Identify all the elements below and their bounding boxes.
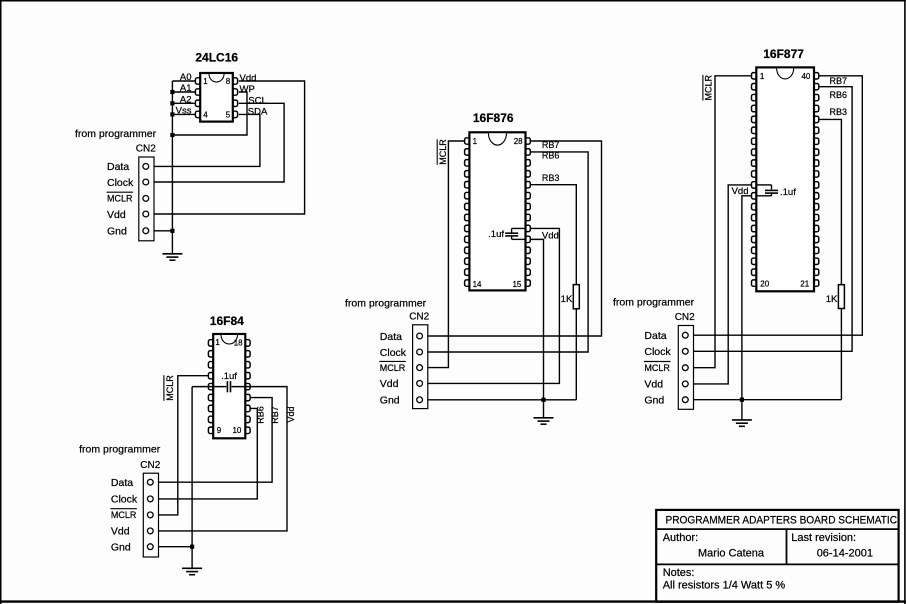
svg-text:16F877: 16F877	[763, 47, 804, 61]
title block frame	[656, 510, 898, 602]
IC U3 16F876 right pin stubs	[525, 138, 531, 286]
wire SCL to CN2 Clock	[149, 103, 284, 182]
resistor R2 1K body	[838, 285, 844, 309]
svg-text:MCLR: MCLR	[644, 363, 670, 373]
wire A0 to bus	[172, 80, 195, 82]
wire Vss to bus	[172, 113, 195, 115]
svg-text:Gnd: Gnd	[380, 395, 400, 407]
svg-text:Vdd: Vdd	[542, 231, 559, 242]
svg-text:CN2: CN2	[675, 312, 695, 323]
wire Vss pin12 to ground D	[742, 196, 752, 400]
junction A2	[170, 101, 174, 105]
ground symbol C	[534, 417, 554, 419]
svg-text:Mario Catena: Mario Catena	[698, 547, 765, 559]
wire pin28 to CN2 Data	[421, 141, 602, 336]
junction Gnd C	[541, 398, 545, 402]
wire CN2 Gnd row C	[421, 399, 576, 401]
page border frame	[0, 0, 906, 2]
svg-text:from programmer: from programmer	[79, 443, 161, 455]
connector CN2 body	[678, 326, 693, 410]
wire MCLR pin1 to CN2 D	[688, 76, 752, 368]
svg-text:MCLR: MCLR	[438, 139, 448, 165]
IC U3 16F876 body with notch	[469, 132, 525, 290]
wire cap bracket bottom C	[512, 238, 527, 240]
wire cap bracket top D	[756, 184, 772, 186]
title block divider row2	[656, 563, 898, 565]
svg-text:RB3: RB3	[830, 107, 848, 117]
svg-text:Gnd: Gnd	[111, 542, 131, 554]
svg-text:15: 15	[512, 280, 521, 289]
title block divider row1	[656, 528, 898, 530]
svg-text:SDA: SDA	[248, 107, 268, 118]
junction Gnd D	[740, 398, 744, 402]
IC U4 16F877 left pin stubs	[752, 73, 758, 287]
svg-text:1K: 1K	[826, 294, 838, 305]
svg-text:1: 1	[760, 72, 765, 81]
wire Vdd pin14 to CN2 Vdd	[154, 387, 287, 531]
svg-text:16F876: 16F876	[473, 111, 514, 125]
svg-text:Vdd: Vdd	[111, 526, 130, 538]
svg-text:MCLR: MCLR	[704, 74, 714, 100]
wire Vss pin5 to ground	[191, 387, 193, 547]
svg-text:40: 40	[801, 72, 810, 81]
junction Gnd B	[190, 545, 194, 549]
ground stem D	[741, 400, 743, 420]
wire A2 to bus	[172, 102, 195, 104]
capacitor C3 .1uf D	[771, 185, 773, 190]
wire Vdd pin11 to CN2 Vdd D	[688, 185, 752, 384]
svg-text:MCLR: MCLR	[165, 375, 175, 401]
svg-text:CN2: CN2	[409, 312, 429, 323]
wire MCLR pin4 to CN2	[154, 376, 209, 515]
svg-text:1: 1	[203, 77, 208, 86]
wire A1 to bus	[172, 91, 195, 93]
IC U2 16F84 left pin stubs	[208, 340, 214, 434]
wire ground bus vertical	[171, 81, 173, 231]
svg-text:18: 18	[234, 339, 243, 348]
svg-text:RB6: RB6	[830, 90, 848, 100]
svg-text:Vdd: Vdd	[240, 73, 257, 84]
svg-text:Clock: Clock	[111, 494, 138, 506]
svg-text:06-14-2001: 06-14-2001	[817, 547, 873, 559]
ground symbol	[162, 253, 182, 255]
connector CN2 body	[143, 473, 158, 557]
wire cap bracket bottom D	[756, 195, 772, 197]
svg-text:Last revision:: Last revision:	[791, 532, 856, 544]
wire Vss pin5 left segment	[192, 386, 226, 388]
svg-text:Data: Data	[380, 331, 402, 343]
wire RB6 pin12 to CN2 Clock	[154, 408, 258, 498]
ground symbol B	[182, 567, 202, 569]
svg-text:Clock: Clock	[107, 177, 134, 189]
wire MCLR pin1 to CN2	[421, 141, 465, 368]
wire RB3 pin24 to resistor	[531, 185, 577, 285]
svg-text:16F84: 16F84	[210, 314, 244, 328]
IC U1 24LC16 left pin stubs	[195, 78, 201, 118]
connector CN2 pin circles	[417, 333, 423, 403]
wire SDA to CN2 Data	[149, 114, 260, 166]
svg-text:Data: Data	[644, 330, 666, 342]
connector CN2 pin circles	[682, 332, 688, 402]
wire CN2 Gnd row	[154, 546, 193, 548]
svg-text:Vdd: Vdd	[286, 406, 296, 422]
wire RB7 pin13 to CN2 Data	[154, 398, 273, 483]
svg-text:RB7: RB7	[542, 140, 560, 150]
svg-text:Data: Data	[107, 161, 129, 173]
svg-text:.1uf: .1uf	[780, 187, 796, 198]
svg-text:from programmer: from programmer	[345, 298, 427, 310]
wire CN2 Gnd to ground	[149, 230, 173, 232]
wire resistor to Gnd row D	[840, 309, 842, 400]
svg-text:1K: 1K	[561, 294, 573, 305]
svg-text:21: 21	[800, 279, 809, 288]
svg-text:.1uf: .1uf	[221, 371, 237, 382]
wire pin27 to CN2 Clock	[421, 152, 588, 352]
junction WP return	[170, 133, 174, 137]
connector CN2 body	[413, 325, 428, 409]
svg-text:14: 14	[473, 280, 482, 289]
wire Vss pin19 to ground C	[531, 239, 544, 399]
svg-text:28: 28	[514, 137, 523, 146]
capacitor C1 .1uf C	[511, 228, 513, 232]
svg-text:Clock: Clock	[644, 346, 671, 358]
ground symbol D	[732, 419, 752, 421]
svg-text:SCL: SCL	[248, 96, 266, 107]
svg-text:All resistors 1/4 Watt 5 %: All resistors 1/4 Watt 5 %	[663, 580, 786, 592]
svg-text:9: 9	[217, 426, 222, 435]
ground stem C	[543, 400, 545, 418]
wire Vdd pin20 to CN2 Vdd	[421, 228, 560, 383]
svg-text:RB3: RB3	[542, 173, 560, 183]
svg-text:Clock: Clock	[380, 347, 407, 359]
IC U2 16F84 right pin stubs	[244, 340, 250, 434]
connector CN2 pin circles	[143, 164, 149, 234]
svg-text:Gnd: Gnd	[644, 395, 664, 407]
svg-text:RB7: RB7	[270, 406, 280, 424]
IC U3 16F876 left pin stubs	[465, 138, 471, 286]
IC U4 16F877 body with notch	[756, 67, 814, 291]
svg-text:RB6: RB6	[542, 151, 560, 161]
svg-text:MCLR: MCLR	[107, 194, 133, 204]
svg-text:4: 4	[203, 111, 208, 120]
svg-text:.1uf: .1uf	[488, 229, 504, 240]
svg-text:RB6: RB6	[256, 406, 266, 424]
wire pin40 to CN2 Data D	[688, 76, 862, 335]
svg-text:24LC16: 24LC16	[195, 50, 238, 64]
capacitor C2 .1uf plates	[226, 381, 228, 392]
IC U4 16F877 right pin stubs	[813, 73, 819, 287]
resistor R1 1K body	[573, 285, 579, 309]
svg-text:Vdd: Vdd	[644, 379, 663, 391]
ground stem B	[191, 547, 193, 569]
wire pin39 to CN2 Clock D	[688, 87, 852, 352]
svg-text:MCLR: MCLR	[111, 510, 137, 520]
svg-text:5: 5	[226, 111, 231, 120]
wire WP to ground bus	[172, 92, 247, 135]
svg-text:8: 8	[226, 77, 231, 86]
junction A1	[170, 90, 174, 94]
wire resistor to Gnd row	[575, 309, 577, 400]
svg-text:CN2: CN2	[136, 144, 156, 155]
svg-text:PROGRAMMER ADAPTERS BOARD SCHE: PROGRAMMER ADAPTERS BOARD SCHEMATIC	[666, 515, 898, 527]
svg-text:CN2: CN2	[140, 460, 160, 471]
wire RB3 pin36 to resistor D	[819, 119, 842, 284]
svg-text:1: 1	[215, 338, 220, 347]
svg-text:Notes:: Notes:	[663, 567, 695, 579]
connector CN2 body	[139, 157, 154, 241]
svg-text:20: 20	[760, 279, 769, 288]
IC U1 24LC16 body with notch	[200, 73, 233, 122]
svg-text:MCLR: MCLR	[380, 363, 406, 373]
svg-text:Author:: Author:	[663, 532, 698, 544]
IC U1 24LC16 right pin stubs	[232, 78, 238, 118]
wire cap bracket top C	[512, 227, 527, 229]
svg-text:1: 1	[473, 137, 478, 146]
svg-text:10: 10	[232, 426, 241, 435]
svg-text:RB7: RB7	[830, 76, 848, 86]
IC U2 16F84 body with notch	[213, 334, 245, 438]
junction Vss	[170, 112, 174, 116]
svg-text:Vdd: Vdd	[107, 209, 126, 221]
svg-text:Data: Data	[111, 477, 133, 489]
wire Vdd pin8 to CN2 Vdd	[149, 81, 305, 214]
svg-text:from programmer: from programmer	[613, 296, 695, 308]
title block divider vertical	[786, 529, 788, 564]
svg-text:Gnd: Gnd	[107, 226, 127, 238]
svg-text:from programmer: from programmer	[75, 128, 157, 140]
ground stem	[171, 231, 173, 254]
connector CN2 pin circles	[147, 479, 153, 549]
svg-text:Vdd: Vdd	[380, 378, 399, 390]
junction Gnd row	[170, 229, 174, 233]
wire CN2 Gnd row D	[688, 399, 842, 401]
